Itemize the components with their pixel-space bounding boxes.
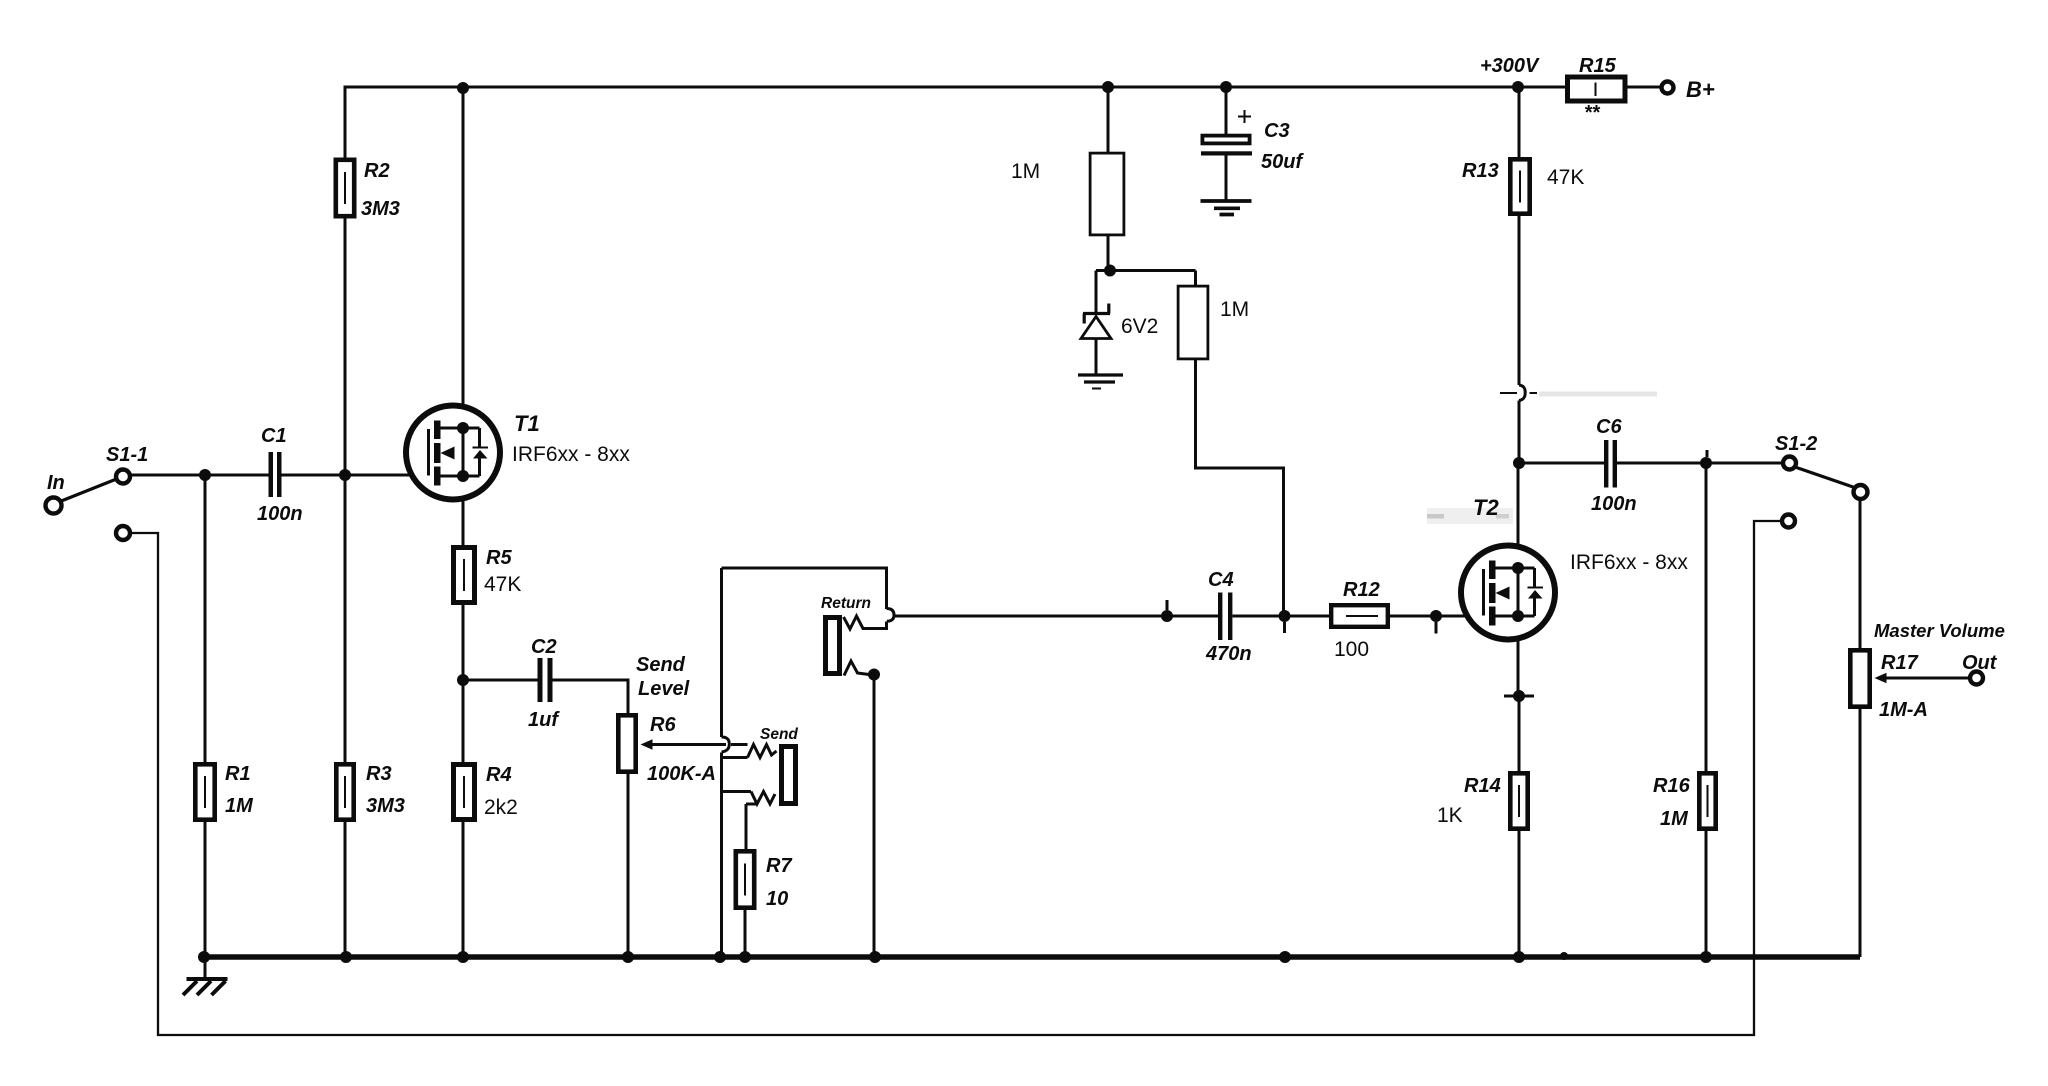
svg-text:R17: R17: [1881, 652, 1919, 674]
svg-text:R14: R14: [1464, 775, 1501, 797]
svg-text:R2: R2: [364, 160, 390, 182]
svg-text:100: 100: [1334, 638, 1369, 661]
svg-text:IRF6xx - 8xx: IRF6xx - 8xx: [1570, 551, 1688, 574]
svg-text:B+: B+: [1686, 77, 1715, 102]
svg-text:470n: 470n: [1205, 643, 1252, 665]
svg-text:R4: R4: [486, 764, 512, 786]
svg-text:100K-A: 100K-A: [647, 763, 716, 785]
svg-text:1M: 1M: [225, 795, 254, 817]
svg-text:Send: Send: [760, 726, 798, 743]
svg-text:6V2: 6V2: [1121, 315, 1158, 338]
svg-text:Master Volume: Master Volume: [1874, 620, 2005, 641]
svg-text:T2: T2: [1473, 495, 1499, 520]
svg-text:IRF6xx - 8xx: IRF6xx - 8xx: [512, 443, 630, 466]
svg-text:R12: R12: [1343, 579, 1380, 601]
svg-text:R6: R6: [650, 714, 676, 736]
svg-text:R3: R3: [366, 763, 392, 785]
svg-text:3M3: 3M3: [366, 795, 405, 817]
svg-text:1M: 1M: [1220, 298, 1249, 321]
svg-text:S1-2: S1-2: [1775, 433, 1817, 455]
svg-text:R15: R15: [1579, 55, 1617, 77]
svg-text:2k2: 2k2: [484, 796, 518, 819]
svg-text:C4: C4: [1208, 569, 1234, 591]
svg-text:C2: C2: [531, 636, 557, 658]
svg-text:R16: R16: [1653, 775, 1691, 797]
svg-text:+300V: +300V: [1480, 55, 1540, 77]
svg-text:T1: T1: [514, 411, 540, 436]
svg-text:1M: 1M: [1660, 808, 1689, 830]
svg-text:10: 10: [766, 888, 788, 910]
svg-text:47K: 47K: [484, 573, 521, 596]
svg-text:100n: 100n: [1591, 493, 1637, 515]
svg-text:1uf: 1uf: [528, 709, 560, 731]
svg-text:Return: Return: [821, 595, 871, 612]
svg-text:R1: R1: [225, 763, 251, 785]
svg-text:C1: C1: [261, 425, 287, 447]
svg-text:1K: 1K: [1437, 804, 1463, 827]
svg-text:50uf: 50uf: [1261, 151, 1304, 173]
svg-text:1M-A: 1M-A: [1879, 699, 1928, 721]
svg-text:Level: Level: [638, 678, 690, 700]
svg-text:**: **: [1584, 102, 1601, 124]
svg-text:R5: R5: [486, 547, 512, 569]
svg-text:1M: 1M: [1011, 160, 1040, 183]
svg-text:R7: R7: [766, 855, 792, 877]
svg-text:Out: Out: [1962, 652, 1998, 674]
svg-text:In: In: [47, 472, 65, 494]
svg-text:C3: C3: [1264, 120, 1290, 142]
svg-text:3M3: 3M3: [361, 198, 400, 220]
svg-text:100n: 100n: [257, 503, 303, 525]
svg-text:R13: R13: [1462, 160, 1499, 182]
svg-text:S1-1: S1-1: [106, 444, 148, 466]
svg-text:C6: C6: [1596, 416, 1622, 438]
svg-text:47K: 47K: [1547, 166, 1584, 189]
svg-text:Send: Send: [636, 654, 686, 676]
